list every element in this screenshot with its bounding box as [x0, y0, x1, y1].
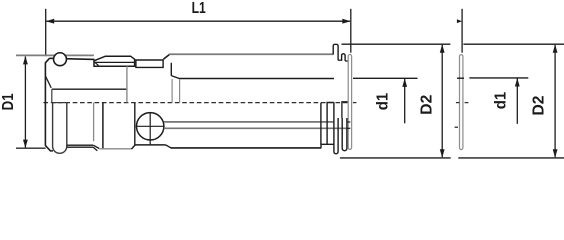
dimension D1 extension line top (gray): [16, 54, 94, 56]
svg-text:d1: d1: [493, 92, 510, 110]
body top edge: [50, 58, 95, 59]
dimension D2a arrow bottom: [440, 149, 445, 158]
view3 centerline dash a: [456, 102, 459, 104]
mid-ring bottom edge: [135, 144, 166, 146]
dimension D1 arrow bottom: [23, 140, 28, 149]
collet stem vertical gray: [126, 66, 128, 102]
view3 L1 reference arrow: [457, 19, 462, 23]
collet inner line: [94, 61, 135, 63]
slot top line: [53, 102, 67, 104]
dimension D1 arrow top: [23, 56, 28, 65]
groove floor line 2: [345, 60, 348, 62]
tube bottom chamfer from mid-ring: [166, 145, 171, 148]
view3 centerline dash b: [465, 102, 469, 104]
bore step vertical a: [171, 79, 173, 103]
dimension d1a arrow: [402, 78, 407, 87]
bead B bottom capsule: [342, 118, 347, 151]
dimension D2b arrow bottom: [553, 149, 558, 158]
bead B top bump: [342, 54, 346, 61]
view2 centerline dash: [353, 102, 357, 104]
o-ring section circle: [137, 113, 164, 140]
dimension L1 extension line right: [350, 9, 352, 53]
main centerline: [44, 102, 349, 104]
stem shoulder vertical: [170, 63, 172, 76]
mid-ring bottom chamfer-up: [132, 145, 136, 149]
svg-text:D2: D2: [419, 95, 436, 115]
dimension d1a line: [404, 79, 406, 124]
hex chamfer to tube: [163, 55, 169, 60]
dimension L1 line: [46, 20, 350, 22]
end step corner: [321, 144, 334, 148]
bore line horizontal: [52, 88, 127, 90]
svg-text:D2: D2: [531, 95, 548, 115]
dimension L1 extension line left: [45, 9, 47, 56]
view3 ext line vertical: [461, 9, 463, 53]
svg-text:d1: d1: [375, 93, 392, 111]
stem pair line upper gray: [164, 121, 334, 123]
flange C hidden stub: [347, 121, 350, 123]
body top-left chamfer: [45, 58, 49, 63]
stem pair line lower gray: [164, 127, 349, 129]
dimension D2b top ext: [463, 43, 564, 45]
dimension D2a bottom ext: [340, 157, 451, 159]
collet bottom-section edge gray: [100, 148, 132, 150]
body bottom edge segment: [50, 150, 53, 152]
flange C hidden stub 2: [347, 127, 350, 129]
bore chamfer diagonal: [45, 76, 51, 88]
dimension D2b arrow top: [553, 44, 558, 53]
collet outline: [94, 56, 135, 66]
tube bottom edge: [171, 147, 322, 149]
groove floor line: [338, 59, 342, 61]
bore pocket 2 bar: [342, 102, 348, 118]
section chamfer upper: [93, 145, 99, 148]
tube top edge gray: [169, 53, 333, 55]
svg-text:L1: L1: [192, 0, 206, 17]
bead A top bump: [333, 44, 338, 60]
section vertical gray left: [93, 103, 95, 142]
dimension D2b line: [554, 45, 556, 157]
section double line upper: [67, 144, 93, 146]
mid-ring bottom vertical: [134, 103, 136, 145]
bore pocket 1: [327, 102, 334, 144]
dimension D2a arrow top: [440, 44, 445, 53]
bore step vertical b: [179, 79, 181, 103]
view3 stem top line: [469, 77, 528, 79]
body bottom-left chamfer: [45, 146, 50, 151]
dimension d1b arrow: [515, 78, 520, 87]
o-ring crosshair horizontal: [137, 125, 164, 127]
body left edge: [44, 62, 46, 145]
end step vertical: [320, 103, 322, 145]
svg-text:D1: D1: [0, 93, 17, 110]
dimension L1 arrow right: [342, 19, 351, 24]
section chamfer lower: [93, 147, 97, 151]
dimension D1 line: [24, 57, 26, 148]
view2 stem top line: [353, 77, 418, 79]
collet inner corner diagonal: [95, 62, 99, 65]
flange D capsule gray: [459, 55, 462, 150]
dimension D1 extension line bottom: [16, 147, 46, 149]
stem shoulder chamfer: [171, 76, 179, 79]
bead A bottom capsule: [334, 102, 338, 153]
dimension D2b bottom ext: [458, 157, 564, 159]
dimension L1 arrow left: [46, 19, 55, 24]
stem top line main: [179, 78, 334, 80]
flange D stem stub black: [457, 77, 464, 79]
o-ring crosshair vertical: [149, 113, 151, 145]
flange D hidden dash: [455, 126, 458, 128]
dimension D2a line: [441, 45, 443, 157]
section double line lower: [67, 146, 93, 148]
flange C capsule gray: [348, 54, 351, 149]
dimension d1b line: [516, 78, 518, 124]
section vertical black: [102, 103, 104, 149]
o-ring circle top: [54, 53, 67, 66]
mid-ring top box: [136, 60, 163, 67]
bottom slot capsule: [53, 103, 67, 154]
dimension D2a top ext: [342, 43, 451, 45]
